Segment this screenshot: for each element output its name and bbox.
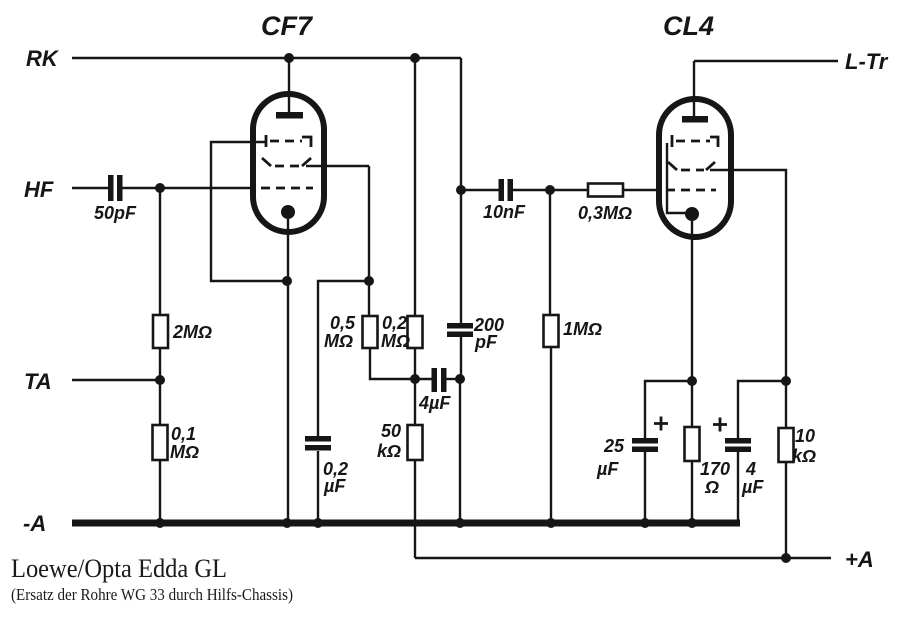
svg-text:RK: RK xyxy=(26,46,60,71)
tube CF7 envelope xyxy=(253,11,324,232)
grid g3 CL4 (control grid dashed) xyxy=(666,189,716,192)
wire 0,5M bottom to screen node xyxy=(370,348,415,379)
wire TA input xyxy=(72,379,160,381)
svg-text:-A: -A xyxy=(23,511,46,536)
wire CF7 anode lead to RK xyxy=(288,58,290,114)
wire 10nF node down to 1M xyxy=(549,190,551,315)
svg-text:10: 10 xyxy=(795,426,815,446)
node g2/10k junction xyxy=(781,376,791,386)
node -A 25uF xyxy=(640,518,650,528)
wire CL4 anode lead up xyxy=(693,61,695,118)
cathode CL4 xyxy=(685,207,699,221)
wire g2 node down to 0,5M xyxy=(368,281,370,316)
grid g1 CL4 (dashed with hooks) xyxy=(672,135,718,147)
wire CL4 g2 out right and down xyxy=(710,170,786,381)
wire 4uF to -A bus end xyxy=(737,452,739,523)
capacitor 50pF xyxy=(94,175,137,223)
grid g3 CF7 (control grid dashed) xyxy=(261,187,313,190)
node g1/cathode junction xyxy=(282,276,292,286)
node -A 0,2uF xyxy=(313,518,323,528)
wire 50k down to +A line xyxy=(414,460,416,558)
wire CL4 g1 tied to cathode (internal) xyxy=(667,143,688,213)
svg-text:µF: µF xyxy=(323,476,346,496)
svg-text:TA: TA xyxy=(24,369,52,394)
resistor 0,1MOhm xyxy=(153,424,200,462)
resistor 1MOhm xyxy=(544,315,603,347)
svg-text:kΩ: kΩ xyxy=(377,441,401,461)
wire CL4 cathode down xyxy=(691,221,693,381)
node -A 0,1M xyxy=(155,518,165,528)
svg-text:50: 50 xyxy=(381,421,401,441)
resistor 0,5MOhm xyxy=(324,313,378,351)
wire 0,1M to -A bus xyxy=(159,460,161,523)
svg-text:µF: µF xyxy=(741,477,764,497)
node -A CF7 cathode xyxy=(282,518,292,528)
svg-text:0,5: 0,5 xyxy=(330,313,356,333)
resistor 170 Ohm xyxy=(685,427,731,497)
wire CF7 g1 out left and down to cathode xyxy=(211,142,287,281)
svg-text:µF: µF xyxy=(596,459,619,479)
wire junction left to 0,2uF branch xyxy=(318,281,369,436)
wire g2 branch down xyxy=(368,166,370,281)
wire HF node down to 2M xyxy=(159,188,161,315)
grid g1 CF7 (dashed with end hooks) xyxy=(266,135,311,147)
svg-text:(Ersatz der Rohre WG 33 durch: (Ersatz der Rohre WG 33 durch Hilfs-Chas… xyxy=(11,585,293,604)
wire 50pF to grid node xyxy=(122,187,160,189)
resistor 0,3MOhm xyxy=(550,184,659,224)
tube CL4 envelope xyxy=(659,11,731,237)
wire cathode node to 25uF xyxy=(645,381,692,438)
resistor 10kOhm xyxy=(779,426,817,466)
node RK/anode CF7 xyxy=(284,53,294,63)
capacitor 10nF xyxy=(461,179,550,222)
node -A 1M xyxy=(546,518,556,528)
node screen junction A xyxy=(410,374,420,384)
wire -A bus xyxy=(72,520,740,527)
grid g2 CF7 (dashed with slanted ends) xyxy=(262,158,311,166)
wire CF7 cathode down to -A xyxy=(287,219,289,523)
wire g2 node down to 10k xyxy=(785,381,787,428)
svg-text:50pF: 50pF xyxy=(94,203,137,223)
svg-text:MΩ: MΩ xyxy=(170,442,199,462)
anode plate CL4 xyxy=(682,116,708,123)
wire node B down to -A xyxy=(459,379,461,523)
svg-text:4: 4 xyxy=(745,459,756,479)
svg-text:0,2: 0,2 xyxy=(382,313,407,333)
wire TA node down to 0,1M xyxy=(159,380,161,425)
svg-text:pF: pF xyxy=(474,332,498,352)
node -A 170 Ohm xyxy=(687,518,697,528)
node 10nF right junction xyxy=(545,185,555,195)
svg-text:L-Tr: L-Tr xyxy=(845,49,889,74)
svg-text:+A: +A xyxy=(845,547,874,572)
node RK/0,2M top xyxy=(410,53,420,63)
svg-text:kΩ: kΩ xyxy=(792,446,816,466)
svg-text:0,3MΩ: 0,3MΩ xyxy=(578,203,632,223)
svg-text:MΩ: MΩ xyxy=(381,331,410,351)
node HF grid junction xyxy=(155,183,165,193)
svg-text:CL4: CL4 xyxy=(663,11,714,41)
wire 25uF to -A xyxy=(644,452,646,523)
node +A 10k xyxy=(781,553,791,563)
svg-text:Ω: Ω xyxy=(704,477,719,497)
svg-text:25: 25 xyxy=(603,436,625,456)
capacitor 4uF electrolytic xyxy=(713,418,764,498)
wire grid feed into CF7 xyxy=(160,187,253,189)
wire 170 Ohm to -A xyxy=(691,461,693,523)
wire RK node down through 0,2M xyxy=(414,58,416,316)
wire HF input xyxy=(72,187,109,189)
svg-text:2MΩ: 2MΩ xyxy=(172,322,212,342)
svg-text:Loewe/Opta Edda GL: Loewe/Opta Edda GL xyxy=(11,554,227,583)
wire node A down to 50k xyxy=(414,379,416,425)
node junction B on anode line xyxy=(455,374,465,384)
wire 1M to -A xyxy=(550,347,552,523)
node TA junction xyxy=(155,375,165,385)
wire CF7 g2 out right xyxy=(306,165,369,167)
svg-text:CF7: CF7 xyxy=(261,11,314,41)
node g2 branch junction xyxy=(364,276,374,286)
capacitor 4uF (coupling) xyxy=(415,368,460,413)
resistor 2MOhm xyxy=(153,315,212,348)
svg-text:4µF: 4µF xyxy=(418,393,451,413)
wire RK bus xyxy=(72,57,461,59)
resistor 0,2MOhm xyxy=(381,313,423,351)
capacitor 25uF electrolytic xyxy=(596,417,668,480)
wire 0,2uF to -A xyxy=(317,451,319,523)
grid g2 CL4 (dashed slanted ends) xyxy=(668,162,715,170)
svg-text:1MΩ: 1MΩ xyxy=(563,319,602,339)
wire L-Tr line xyxy=(694,60,838,62)
svg-text:0,1: 0,1 xyxy=(171,424,196,444)
resistor 50kOhm xyxy=(377,421,423,461)
wire 0,2M to screen node xyxy=(414,348,416,379)
wire 2M to TA node xyxy=(159,348,161,380)
node 10nF left junction xyxy=(456,185,466,195)
anode plate CF7 xyxy=(276,112,303,119)
wire cathode node down to 170 Ohm xyxy=(691,381,693,427)
wire RK right vertical down to 10nF node xyxy=(460,58,462,323)
svg-text:10nF: 10nF xyxy=(483,202,526,222)
wire 200pF bottom to node B xyxy=(460,337,462,379)
wire 10k down to +A xyxy=(785,462,787,558)
svg-text:170: 170 xyxy=(700,459,730,479)
capacitor 0,2uF xyxy=(305,436,348,496)
wire +A line xyxy=(415,557,831,559)
wire junction to 4uF xyxy=(738,381,786,438)
svg-text:HF: HF xyxy=(24,177,54,202)
capacitor 200pF xyxy=(447,315,504,352)
node -A anode line xyxy=(455,518,465,528)
cathode CF7 xyxy=(281,205,295,219)
svg-text:MΩ: MΩ xyxy=(324,331,353,351)
node cathode junction CL4 xyxy=(687,376,697,386)
